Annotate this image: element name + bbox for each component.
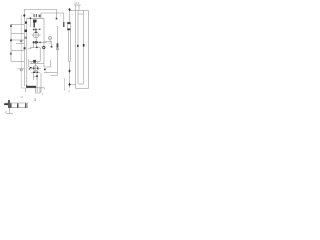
screw open square [56, 48, 58, 50]
strip double verticals [69, 30, 71, 62]
wire second leader [41, 13, 64, 22]
mid opening right vertical [39, 48, 41, 62]
dim line left x11 [10, 25, 12, 62]
hub dim bead 1 [33, 29, 35, 31]
lock case right edge [43, 18, 45, 67]
strip screw rect [67, 22, 70, 30]
front inner vertical R [82, 11, 84, 85]
faceplate inner edge [26, 18, 28, 86]
screw line x57.5 [56, 26, 58, 76]
top dim line [74, 4, 81, 6]
gear box legs [34, 77, 38, 81]
hub dim bead 2 [35, 29, 37, 31]
hub dim bead 3 [39, 29, 40, 31]
latch head dark [33, 20, 37, 23]
background [0, 0, 91, 120]
arrow dot on top edge [30, 18, 32, 20]
lock case top edge [27, 17, 44, 19]
small text on dim [10, 53, 12, 55]
latch tail dark [34, 23, 35, 28]
strip top cap [67, 22, 70, 24]
cyl bead 3 [37, 41, 38, 43]
arrow dot case corner [44, 69, 46, 71]
up arrow leader [10, 24, 12, 27]
tiny text above y43.5 [20, 40, 22, 42]
lower hub left dot [29, 68, 30, 69]
detail right end [27, 103, 29, 108]
case step outline [44, 60, 51, 67]
lower base marks [33, 72, 35, 74]
diamond x11 y40 [10, 39, 12, 42]
cyl bead 4 [40, 42, 41, 44]
latch front square [25, 22, 27, 24]
svg-text:14,5: 14,5 [74, 1, 80, 5]
top dim ext lines [76, 5, 79, 11]
cyl cluster [33, 41, 35, 43]
small circle phi [49, 37, 52, 40]
open square on x21.2 y70 [20, 69, 22, 71]
text 8 dark [39, 15, 41, 18]
mid square legs [34, 62, 36, 64]
lower hub bead right [37, 68, 38, 70]
lower hub bead left [33, 68, 34, 70]
lower hub base [31, 72, 40, 74]
bottom box mid [36, 88, 41, 93]
hub base long line [44, 72, 57, 74]
dot end of top leader [56, 18, 58, 20]
tick above hub base [45, 71, 47, 73]
vert dim line [69, 62, 71, 89]
third front mark [25, 37, 27, 39]
detail screw stem [9, 108, 11, 114]
front view outer rect [76, 11, 89, 89]
cyl shelf dot [36, 47, 38, 49]
rail T tick [25, 85, 28, 88]
screw marks x57.5 [57, 43, 59, 47]
cover plate corner [51, 75, 58, 77]
detail bar seg2 [17, 103, 19, 107]
front inner top notch [78, 13, 83, 15]
front inner vertical L [77, 11, 79, 85]
front slot mark R [83, 44, 85, 47]
detail bottom line [9, 107, 28, 109]
leader end square [51, 46, 53, 48]
dim ext bottom [70, 84, 76, 86]
front view top line to strip [70, 10, 76, 12]
detail bar seg3 [25, 103, 27, 107]
strip center line [69, 11, 71, 22]
cylinder line [32, 42, 47, 44]
mid shelf left tick [28, 60, 30, 62]
cylinder stem [36, 39, 38, 48]
svg-text:3: 3 [34, 98, 36, 102]
cylinder jog [28, 48, 31, 49]
dim tick y61.5 [11, 61, 24, 63]
lower ticks [32, 62, 38, 64]
phi stem [49, 36, 51, 44]
cylinder shelf [30, 47, 40, 49]
bottom box left [25, 88, 27, 92]
hub dim line y29 [34, 28, 41, 30]
gear box [34, 73, 38, 77]
dim tick y33.5 [11, 33, 24, 35]
detail bar seg1 [10, 103, 12, 107]
wire ext x41 [40, 13, 42, 18]
faceplate outer edge [23, 9, 25, 86]
cyl ring [43, 46, 45, 48]
detail foot tick [5, 111, 8, 113]
front inner bottom [78, 83, 83, 85]
diamond dim lower [68, 83, 70, 86]
diamond dim upper [68, 69, 70, 72]
hub cross vertical [35, 29, 37, 39]
detail screw head [8, 100, 10, 108]
detail top line [5, 102, 28, 104]
detail left cap [4, 103, 8, 105]
tick y68.8 [18, 68, 25, 70]
dim ticks above latch [33, 14, 36, 17]
strip bottom cap [67, 28, 70, 30]
lower hub circle [33, 66, 38, 71]
wire top extension line [24, 9, 56, 19]
mid screw dark [33, 60, 36, 63]
rail light line [27, 88, 44, 90]
front slot mark L [77, 45, 79, 47]
cyl bead 2 [35, 41, 37, 44]
cyl cluster left drop [33, 43, 35, 47]
mid shelf y61.5 [29, 60, 41, 62]
hub circle [33, 32, 39, 38]
hub cross horizontal [32, 34, 41, 36]
dim tick y24.6 [11, 24, 24, 26]
extension corner y43.5 [16, 43, 24, 45]
rail dark band [27, 86, 36, 88]
diamond on faceplate [23, 14, 25, 18]
aux bolt front [25, 30, 27, 33]
lower hub cross [31, 64, 41, 73]
lower hub arrow [30, 67, 33, 69]
extension x64.6 [64, 78, 66, 91]
lower case line y63.5 [30, 63, 44, 65]
gear dot [36, 75, 38, 77]
latch guide vertical [30, 18, 32, 27]
stub x28.8 [28, 61, 30, 67]
dark segment on x63.8 [63, 22, 64, 27]
leader y41.5 [44, 42, 52, 47]
dim tick y50.5 [11, 50, 24, 52]
rail verticals [37, 73, 41, 93]
hub top dark [35, 32, 37, 34]
diamond strip top [68, 8, 70, 11]
detail foot [6, 113, 13, 115]
faceplate square y47 [24, 47, 26, 49]
dim tick y40 [11, 39, 24, 41]
extension line x20.9 [21, 15, 26, 88]
strip bottom U [69, 61, 71, 63]
